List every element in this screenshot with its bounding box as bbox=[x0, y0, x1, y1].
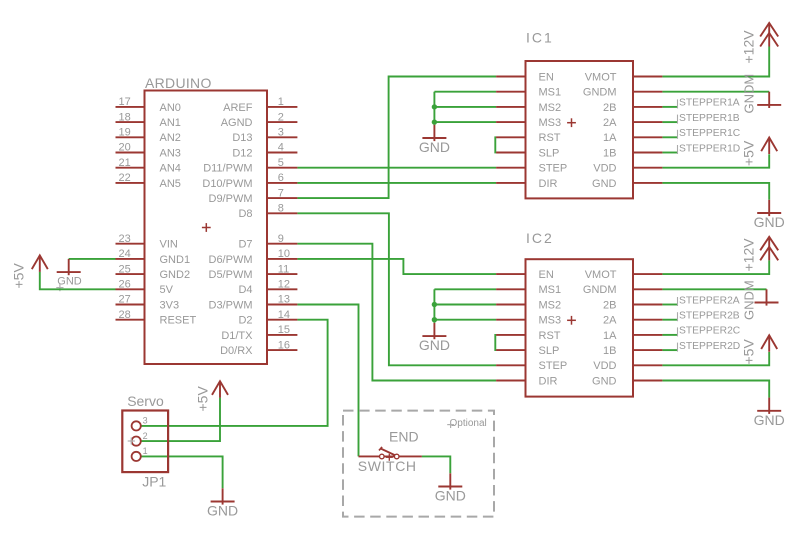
svg-text:EN: EN bbox=[539, 71, 554, 83]
svg-text:GND: GND bbox=[754, 214, 785, 230]
svg-text:STEPPER2B: STEPPER2B bbox=[679, 311, 740, 322]
svg-text:GNDM: GNDM bbox=[742, 74, 757, 114]
svg-text:+5V: +5V bbox=[741, 140, 757, 166]
svg-text:ARDUINO: ARDUINO bbox=[145, 75, 212, 91]
svg-text:STEP: STEP bbox=[539, 163, 568, 175]
svg-text:+5V: +5V bbox=[741, 339, 757, 365]
svg-text:11: 11 bbox=[278, 263, 289, 275]
svg-text:3: 3 bbox=[278, 127, 284, 139]
svg-text:D6/PWM: D6/PWM bbox=[209, 254, 253, 266]
svg-text:D11/PWM: D11/PWM bbox=[203, 163, 252, 175]
svg-text:2B: 2B bbox=[603, 102, 616, 114]
svg-text:STEP: STEP bbox=[539, 360, 568, 372]
svg-text:2A: 2A bbox=[603, 117, 617, 129]
svg-text:SWITCH: SWITCH bbox=[358, 458, 417, 474]
svg-text:D13: D13 bbox=[232, 132, 252, 144]
svg-text:15: 15 bbox=[278, 324, 290, 336]
svg-text:+12V: +12V bbox=[741, 30, 757, 64]
svg-text:STEPPER1C: STEPPER1C bbox=[679, 128, 741, 139]
svg-text:RST: RST bbox=[539, 132, 561, 144]
svg-text:GND: GND bbox=[207, 503, 238, 519]
svg-text:Servo: Servo bbox=[127, 393, 164, 409]
svg-text:MS2: MS2 bbox=[539, 102, 562, 114]
svg-text:16: 16 bbox=[278, 339, 290, 351]
svg-text:24: 24 bbox=[119, 248, 131, 260]
svg-text:9: 9 bbox=[278, 233, 284, 245]
svg-text:DIR: DIR bbox=[539, 178, 558, 190]
svg-text:19: 19 bbox=[119, 127, 131, 139]
svg-text:VDD: VDD bbox=[593, 163, 616, 175]
svg-text:+5V: +5V bbox=[195, 386, 211, 412]
svg-text:GND2: GND2 bbox=[160, 269, 191, 281]
svg-text:2A: 2A bbox=[603, 315, 617, 327]
svg-text:D8: D8 bbox=[238, 208, 252, 220]
svg-text:23: 23 bbox=[119, 233, 131, 245]
svg-text:D12: D12 bbox=[232, 147, 252, 159]
svg-text:1A: 1A bbox=[603, 330, 617, 342]
svg-text:STEPPER1B: STEPPER1B bbox=[679, 113, 740, 124]
svg-text:22: 22 bbox=[119, 172, 131, 184]
svg-text:7: 7 bbox=[278, 187, 284, 199]
svg-text:D3/PWM: D3/PWM bbox=[209, 299, 253, 311]
svg-text:13: 13 bbox=[278, 294, 290, 306]
svg-text:21: 21 bbox=[119, 157, 131, 169]
svg-text:27: 27 bbox=[119, 294, 131, 306]
svg-text:AREF: AREF bbox=[223, 102, 253, 114]
svg-text:STEPPER2A: STEPPER2A bbox=[679, 295, 740, 306]
svg-text:5: 5 bbox=[278, 157, 284, 169]
svg-text:VMOT: VMOT bbox=[585, 269, 617, 281]
svg-text:1: 1 bbox=[143, 446, 148, 456]
svg-text:AN0: AN0 bbox=[160, 102, 181, 114]
svg-text:12: 12 bbox=[278, 279, 290, 291]
svg-text:AN3: AN3 bbox=[160, 147, 181, 159]
svg-text:GNDM: GNDM bbox=[583, 87, 617, 99]
svg-text:D9/PWM: D9/PWM bbox=[209, 193, 253, 205]
svg-text:4: 4 bbox=[278, 142, 284, 154]
svg-text:SLP: SLP bbox=[539, 147, 560, 159]
svg-text:AN4: AN4 bbox=[160, 163, 181, 175]
svg-text:25: 25 bbox=[119, 263, 131, 275]
svg-text:IC1: IC1 bbox=[526, 30, 554, 46]
svg-text:JP1: JP1 bbox=[142, 474, 166, 490]
svg-text:D4: D4 bbox=[238, 284, 252, 296]
svg-text:5V: 5V bbox=[160, 284, 174, 296]
svg-text:D5/PWM: D5/PWM bbox=[209, 269, 253, 281]
svg-text:Optional: Optional bbox=[450, 418, 487, 429]
svg-text:1: 1 bbox=[278, 96, 284, 108]
svg-text:DIR: DIR bbox=[539, 375, 558, 387]
svg-text:GNDM: GNDM bbox=[742, 280, 757, 320]
svg-text:20: 20 bbox=[119, 142, 131, 154]
svg-text:GND: GND bbox=[754, 412, 785, 428]
svg-text:+12V: +12V bbox=[741, 238, 757, 272]
svg-text:GND: GND bbox=[419, 337, 450, 353]
svg-text:VMOT: VMOT bbox=[585, 71, 617, 83]
svg-text:1A: 1A bbox=[603, 132, 617, 144]
svg-text:MS3: MS3 bbox=[539, 117, 562, 129]
svg-text:D10/PWM: D10/PWM bbox=[202, 178, 252, 190]
svg-text:GND: GND bbox=[435, 488, 466, 504]
svg-text:10: 10 bbox=[278, 248, 290, 260]
svg-text:28: 28 bbox=[119, 309, 131, 321]
svg-text:AN1: AN1 bbox=[160, 117, 181, 129]
svg-text:GND1: GND1 bbox=[160, 254, 191, 266]
svg-text:2: 2 bbox=[278, 111, 284, 123]
svg-text:STEPPER2C: STEPPER2C bbox=[679, 326, 741, 337]
svg-text:+5V: +5V bbox=[11, 263, 27, 289]
svg-text:AN2: AN2 bbox=[160, 132, 181, 144]
svg-text:STEPPER2D: STEPPER2D bbox=[679, 341, 740, 352]
svg-text:D7: D7 bbox=[238, 239, 252, 251]
svg-text:END: END bbox=[389, 428, 419, 444]
svg-text:14: 14 bbox=[278, 309, 290, 321]
svg-text:AGND: AGND bbox=[221, 117, 253, 129]
svg-text:GND: GND bbox=[592, 178, 617, 190]
svg-text:1B: 1B bbox=[603, 147, 616, 159]
svg-text:D1/TX: D1/TX bbox=[221, 330, 253, 342]
svg-text:3V3: 3V3 bbox=[160, 299, 180, 311]
svg-text:STEPPER1D: STEPPER1D bbox=[679, 143, 740, 154]
svg-text:MS1: MS1 bbox=[539, 284, 562, 296]
svg-text:3: 3 bbox=[143, 416, 148, 426]
svg-text:RST: RST bbox=[539, 330, 561, 342]
svg-text:6: 6 bbox=[278, 172, 284, 184]
svg-text:MS1: MS1 bbox=[539, 87, 562, 99]
svg-text:SLP: SLP bbox=[539, 345, 560, 357]
svg-text:1B: 1B bbox=[603, 345, 616, 357]
svg-text:26: 26 bbox=[119, 279, 131, 291]
svg-text:VDD: VDD bbox=[593, 360, 616, 372]
svg-text:17: 17 bbox=[119, 96, 131, 108]
svg-text:18: 18 bbox=[119, 111, 131, 123]
svg-text:RESET: RESET bbox=[160, 315, 197, 327]
svg-text:2B: 2B bbox=[603, 299, 616, 311]
svg-text:GND: GND bbox=[57, 276, 82, 288]
svg-text:MS3: MS3 bbox=[539, 315, 562, 327]
svg-text:GNDM: GNDM bbox=[583, 284, 617, 296]
svg-text:D0/RX: D0/RX bbox=[220, 345, 253, 357]
svg-text:VIN: VIN bbox=[160, 239, 178, 251]
svg-text:GND: GND bbox=[419, 139, 450, 155]
svg-text:2: 2 bbox=[143, 431, 148, 441]
svg-text:EN: EN bbox=[539, 269, 554, 281]
svg-text:D2: D2 bbox=[238, 315, 252, 327]
svg-text:IC2: IC2 bbox=[526, 230, 554, 246]
svg-text:AN5: AN5 bbox=[160, 178, 181, 190]
svg-text:STEPPER1A: STEPPER1A bbox=[679, 98, 740, 109]
svg-text:GND: GND bbox=[592, 375, 617, 387]
svg-text:MS2: MS2 bbox=[539, 299, 562, 311]
svg-text:8: 8 bbox=[278, 203, 284, 215]
